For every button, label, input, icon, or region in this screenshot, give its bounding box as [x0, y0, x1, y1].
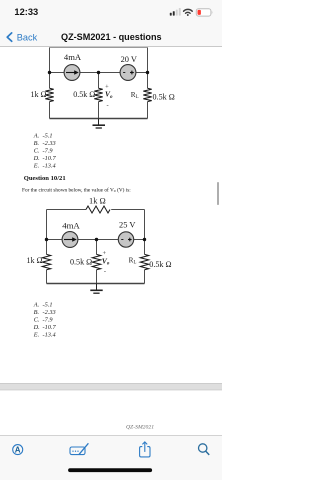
node B (circuit1) [97, 71, 100, 74]
wire: circuit2 middle branch upper [96, 240, 98, 255]
svg-text:0.5k Ω: 0.5k Ω [70, 258, 92, 267]
resistor 1k (circuit2 left) [42, 254, 50, 269]
wire: 20V source to node C [136, 72, 148, 74]
svg-text:-: - [104, 268, 106, 275]
svg-text:20 V: 20 V [121, 55, 137, 64]
wire: circuit1 middle branch lower [98, 102, 100, 119]
svg-text:-7.9: -7.9 [43, 317, 54, 324]
wire: circuit1 left branch upper [49, 48, 51, 89]
wire: circuit2 top wire right of resistor [111, 209, 144, 211]
toolbar signature icon [70, 443, 88, 454]
svg-text:1k Ω: 1k Ω [89, 196, 106, 205]
wire: circuit2 right branch upper [144, 210, 146, 255]
svg-text:D.: D. [33, 324, 40, 331]
node C (circuit1) [146, 71, 149, 74]
svg-text:-10.7: -10.7 [43, 324, 57, 331]
answers list 1 [33, 132, 57, 169]
svg-text:0.5k Ω: 0.5k Ω [73, 90, 95, 99]
node C2 (circuit2) [143, 238, 146, 241]
scrollbar thumb [217, 182, 219, 205]
svg-text:QZ-SM2021: QZ-SM2021 [126, 424, 154, 430]
svg-text:-13.4: -13.4 [43, 163, 56, 170]
ground (circuit2) [90, 284, 102, 294]
wire: circuit1 bottom wire [50, 118, 148, 120]
svg-text:-2.33: -2.33 [43, 140, 56, 147]
svg-text:A.: A. [33, 132, 39, 139]
wire: 4mA source to node B [80, 72, 99, 74]
back chevron [7, 33, 12, 41]
svg-text:C.: C. [34, 148, 40, 155]
svg-text:1k Ω: 1k Ω [27, 256, 43, 265]
status cellular bars [170, 8, 181, 16]
current source 4mA (circuit1) [64, 65, 80, 81]
node B2 (circuit2) [95, 238, 98, 241]
wire: node A2 to 4mA source [47, 239, 63, 241]
wire: 25V source to node C2 [133, 239, 144, 241]
wire: circuit2 top wire left of resistor [47, 209, 87, 211]
home indicator [68, 468, 152, 472]
svg-text:Question 10/21: Question 10/21 [24, 175, 66, 182]
svg-text:B.: B. [34, 140, 39, 147]
svg-text:-: - [107, 102, 109, 109]
node A2 (circuit2) [45, 238, 48, 241]
current source 4mA (circuit2) [62, 232, 78, 248]
svg-text:-13.4: -13.4 [43, 332, 56, 339]
resistor 1k horizontal (circuit2 top) [86, 206, 110, 213]
wire: node B2 to 25V source [97, 239, 119, 241]
svg-text:For the circuit shown below, t: For the circuit shown below, the value o… [22, 186, 131, 193]
wire: node B to 20V source [99, 72, 121, 74]
page background [0, 0, 222, 480]
resistor R 1k (circuit1 left) [45, 88, 53, 101]
voltage source 20V (circuit1) [120, 65, 136, 81]
svg-text:Back: Back [17, 32, 38, 42]
svg-text:-7.9: -7.9 [43, 148, 54, 155]
svg-text:0.5k Ω: 0.5k Ω [149, 260, 171, 269]
svg-text:E.: E. [33, 332, 39, 339]
svg-text:-5.1: -5.1 [43, 301, 53, 308]
wire: circuit1 top wire [50, 47, 148, 49]
svg-text:25 V: 25 V [119, 221, 135, 230]
svg-text:4mA: 4mA [62, 220, 80, 230]
svg-text:12:33: 12:33 [14, 7, 38, 17]
wire: circuit1 middle branch upper [98, 73, 100, 89]
wire: circuit2 left branch upper [46, 210, 48, 255]
svg-text:C.: C. [34, 317, 40, 324]
resistor RL 0.5k (circuit1 right) [143, 88, 151, 101]
resistor RL 0.5k (circuit2 right) [140, 254, 148, 269]
svg-text:0.5k Ω: 0.5k Ω [153, 92, 175, 101]
svg-text:A.: A. [33, 301, 39, 308]
resistor 0.5k Vo (circuit2 middle) [92, 254, 100, 269]
wire: 4mA source to node B2 [78, 239, 97, 241]
page gap [0, 383, 222, 390]
voltage source 25V (circuit2) [118, 232, 133, 247]
wire: circuit2 left branch lower [46, 270, 48, 284]
svg-text:-5.1: -5.1 [43, 132, 53, 139]
wire: circuit1 right branch upper [147, 48, 149, 89]
toolbar search icon [199, 444, 210, 455]
svg-text:A: A [15, 446, 21, 455]
svg-text:-2.33: -2.33 [43, 309, 56, 316]
wire: node A to 4mA source [50, 72, 65, 74]
wire: circuit1 left branch lower [49, 102, 51, 119]
svg-text:B.: B. [34, 309, 39, 316]
status battery [196, 9, 212, 16]
svg-text:D.: D. [33, 155, 40, 162]
wire: circuit2 middle branch lower [96, 270, 98, 284]
svg-text:E.: E. [33, 163, 39, 170]
toolbar separator [0, 434, 222, 437]
wire: circuit2 bottom wire [47, 283, 145, 285]
ground (circuit1) [93, 119, 106, 129]
toolbar share icon [140, 442, 150, 457]
resistor 0.5k Vo (circuit1 middle) [94, 88, 102, 101]
svg-text:4mA: 4mA [64, 52, 82, 62]
toolbar markup icon (circled A) [13, 445, 23, 455]
svg-text:QZ-SM2021 - questions: QZ-SM2021 - questions [61, 32, 162, 42]
answers list 2 [33, 301, 57, 338]
wire: circuit1 right branch lower [147, 102, 149, 119]
toolbar background [0, 436, 222, 480]
svg-text:-10.7: -10.7 [43, 155, 57, 162]
node A (circuit1) [48, 71, 51, 74]
nav separator [0, 46, 222, 47]
top chrome background (status + nav) [0, 0, 222, 47]
wire: circuit2 right branch lower [144, 270, 146, 284]
status wifi [184, 9, 193, 16]
svg-text:1k Ω: 1k Ω [31, 90, 47, 99]
